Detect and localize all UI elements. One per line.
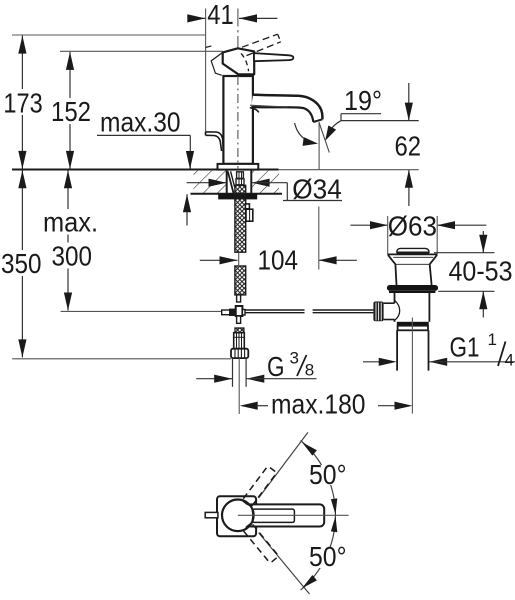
- svg-text:19°: 19°: [344, 85, 382, 116]
- dimension max.180: [240, 402, 258, 410]
- hose end connector: [237, 295, 241, 302]
- G3/8 nut: [231, 349, 248, 358]
- spout body fillet: [250, 108, 259, 113]
- dimension 104: [200, 259, 238, 261]
- pop-up tee block: [236, 306, 243, 316]
- drain seal band: [387, 285, 438, 291]
- 50 degree arc: [301, 441, 336, 591]
- extension line 41 left: [205, 9, 207, 135]
- dimension G1 1/4: [363, 361, 382, 363]
- ref line 350 bottom: [12, 358, 231, 360]
- swivel diagonal upper: [259, 432, 308, 498]
- top view square body: [217, 496, 256, 536]
- dimension 173: [21, 36, 23, 169]
- deck hatch left block: [194, 171, 227, 194]
- dimension G3/8: [196, 378, 232, 380]
- svg-text:Ø63: Ø63: [388, 210, 437, 241]
- svg-text:173: 173: [3, 88, 42, 119]
- svg-text:max.30: max.30: [100, 107, 181, 138]
- ref line max.300 bottom: [61, 310, 222, 312]
- dimension 41: [189, 17, 206, 19]
- svg-text:4: 4: [505, 351, 514, 370]
- deck hole edges: [226, 170, 228, 194]
- faucet base flange: [218, 164, 259, 170]
- ref line 152 level: [60, 50, 223, 52]
- swivel diagonal lower: [259, 533, 310, 594]
- supply pipe centerline: [238, 358, 240, 414]
- handle knob: [223, 48, 255, 74]
- svg-text:Ø34: Ø34: [292, 174, 342, 205]
- supply pipe walls: [232, 358, 234, 387]
- svg-text:152: 152: [51, 96, 91, 127]
- top view spout stub: [205, 512, 218, 517]
- svg-text:300: 300: [52, 241, 93, 272]
- drain collar rings: [397, 322, 429, 326]
- svg-text:350: 350: [1, 248, 42, 279]
- svg-text:104: 104: [258, 245, 299, 276]
- outlet vertical ref line: [318, 122, 320, 169]
- drain tailpipe: [396, 330, 398, 370]
- supply hose upper segment: [235, 185, 246, 252]
- arc arrowheads: [331, 498, 337, 514]
- svg-text:G: G: [267, 351, 285, 382]
- drain knob: [373, 302, 383, 322]
- svg-text:8: 8: [305, 361, 314, 380]
- Ø63 extension lines: [387, 216, 389, 254]
- drain plug cap: [397, 248, 429, 252]
- adapter body: [234, 333, 245, 349]
- 19deg slope line: [319, 122, 329, 153]
- top view lever: [247, 504, 325, 526]
- top view centerline: [238, 514, 349, 516]
- dimension Ø34: [187, 182, 227, 184]
- tee down stub: [237, 316, 241, 323]
- dimension 152: [69, 52, 71, 169]
- drain funnel sides: [388, 255, 395, 264]
- top view circle: [223, 501, 252, 530]
- svg-text:G1: G1: [450, 332, 480, 363]
- svg-text:3: 3: [290, 349, 299, 368]
- faucet centerline: [237, 9, 239, 48]
- drain centerline: [411, 318, 413, 414]
- swivel lever dashed lower: [243, 523, 279, 563]
- deck slab bottom line: [191, 193, 283, 195]
- svg-text:1: 1: [488, 330, 497, 349]
- dimension max.300: [67, 170, 69, 310]
- spout inner edge line: [250, 105, 288, 107]
- drain boss opening: [384, 302, 395, 304]
- label 50 upper: [307, 465, 348, 485]
- deck slab top line: [12, 169, 279, 171]
- spout: [251, 95, 322, 122]
- shank parts in deck hole: [228, 171, 234, 193]
- svg-text:50°: 50°: [309, 541, 347, 572]
- dimension Ø63: [350, 224, 388, 226]
- svg-text:41: 41: [207, 0, 234, 30]
- dimension 350: [21, 170, 23, 357]
- svg-text:max.180: max.180: [271, 389, 366, 420]
- drain upper body: [395, 264, 396, 285]
- handle lever bar: [254, 53, 293, 61]
- angle arc: [295, 123, 316, 143]
- faucet body: [223, 76, 253, 164]
- adapter knurled top: [235, 328, 244, 333]
- swivel lever dashed upper: [242, 466, 277, 507]
- pop-up rod left: [245, 309, 305, 311]
- supply hose lower segment: [235, 266, 246, 295]
- dimension 62: [408, 83, 410, 121]
- handle cap side profile: [211, 52, 223, 75]
- locknut under deck: [219, 194, 257, 199]
- dimension 40-53: [434, 252, 495, 254]
- ref line top (173 level): [12, 34, 206, 36]
- spout outlet face: [313, 119, 322, 122]
- svg-text:40-53: 40-53: [449, 256, 513, 287]
- svg-text:62: 62: [395, 131, 422, 162]
- pop-up rod right: [313, 309, 374, 311]
- handle raised position dashed: [242, 34, 278, 47]
- svg-text:50°: 50°: [309, 459, 347, 490]
- hose side clip: [245, 204, 249, 209]
- drain lower body: [394, 293, 396, 303]
- label 50 lower: [307, 548, 348, 568]
- drain flange top: [387, 253, 437, 255]
- deck hatch right block: [251, 171, 279, 194]
- lever lowered tip: [206, 132, 224, 151]
- svg-text:max.: max.: [43, 207, 98, 238]
